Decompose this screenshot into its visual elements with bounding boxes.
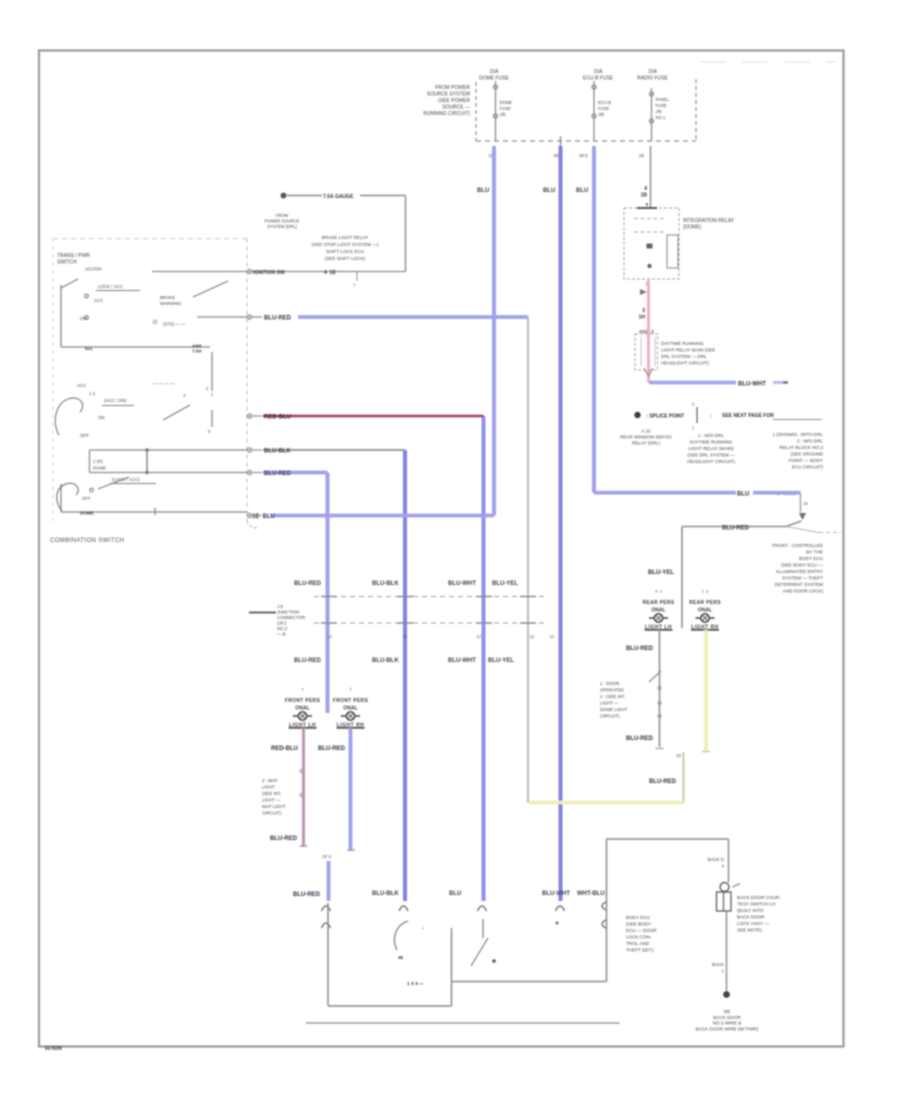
svg-text:4 2: 4 2: [655, 589, 662, 594]
svg-text:FUSE: FUSE: [656, 103, 667, 108]
svg-text:OFF: OFF: [80, 433, 89, 438]
svg-text:FUSE: FUSE: [598, 106, 609, 111]
svg-text:SEE NEXT PAGE FOR: SEE NEXT PAGE FOR: [722, 413, 774, 419]
svg-text:(DOME): (DOME): [683, 225, 702, 231]
svg-text:15A: 15A: [490, 69, 500, 75]
solid ticks at crossings: [321, 597, 536, 624]
svg-text:OFF: OFF: [82, 496, 91, 501]
wire stub from AM2: [211, 352, 213, 391]
wire F2 branch turning right (blue horizontal): [594, 491, 736, 495]
key box description text: [312, 235, 379, 261]
svg-text:ILLUMINATED ENTRY: ILLUMINATED ENTRY: [776, 569, 823, 574]
svg-text:5: 5: [208, 429, 211, 434]
svg-text:(ST2) — —: (ST2) — —: [163, 322, 186, 327]
svg-text:BLU-RED: BLU-RED: [318, 746, 346, 752]
svg-text:J/B: J/B: [500, 112, 506, 117]
svg-text:JUNCTION: JUNCTION: [277, 610, 299, 615]
pin codes below bus: [328, 634, 554, 639]
svg-text:ONAL: ONAL: [343, 706, 357, 712]
svg-text:(SEE DRL SYSTEM —: (SEE DRL SYSTEM —: [687, 453, 735, 458]
svg-text:ON: ON: [80, 316, 87, 321]
svg-text:1 : W/O DRL: 1 : W/O DRL: [698, 433, 724, 438]
switch name text: [737, 895, 781, 933]
svg-text:LIGHT —: LIGHT —: [262, 798, 281, 803]
wire row4 to body ECU pin (blue): [482, 416, 486, 901]
ground splice dot: [723, 991, 730, 998]
svg-text:BLU-YEL: BLU-YEL: [648, 570, 674, 576]
svg-text:— B: — B: [277, 632, 286, 637]
svg-text:1J: 1J: [477, 634, 481, 639]
svg-text:1J: 1J: [403, 634, 407, 639]
svg-text:1: 1: [722, 969, 725, 974]
svg-text:DOME LIGHT: DOME LIGHT: [600, 707, 628, 712]
wire down from box top: [728, 839, 730, 882]
svg-text:LOCK ASSY —: LOCK ASSY —: [737, 921, 769, 926]
svg-text:BLU: BLU: [449, 891, 461, 897]
svg-text:SEE NOTE): SEE NOTE): [737, 928, 762, 933]
svg-text:CIRCUIT): CIRCUIT): [600, 714, 620, 719]
note block A: [620, 429, 672, 446]
svg-text:BACK DOOR: BACK DOOR: [713, 1015, 741, 1020]
arrow under DRL box: [644, 368, 653, 376]
svg-text:7: 7: [353, 283, 356, 288]
svg-text:I47609: I47609: [45, 1046, 62, 1052]
svg-text:CIRCUIT): CIRCUIT): [262, 811, 282, 816]
svg-text:BRAKE: BRAKE: [160, 295, 175, 300]
svg-text:— — — —: — — — —: [153, 381, 175, 386]
wire row y416 red: [248, 415, 262, 417]
switch group 2 spring: [55, 398, 82, 435]
svg-text:4: 4: [644, 186, 647, 192]
svg-text:BLU-YEL: BLU-YEL: [488, 658, 514, 664]
svg-text:BLU-BLK: BLU-BLK: [372, 581, 399, 587]
svg-text:ECU — DOOR: ECU — DOOR: [626, 928, 657, 933]
svg-text:TESY SWITCH LH: TESY SWITCH LH: [737, 902, 776, 907]
svg-text:SYSTEM (DRL): SYSTEM (DRL): [267, 224, 297, 229]
svg-text:(SEE INT.: (SEE INT.: [262, 791, 281, 796]
svg-text:BLU: BLU: [477, 188, 489, 194]
svg-text:REAR WINDOW DEFOG: REAR WINDOW DEFOG: [620, 435, 672, 440]
wire fuse F3 to relay (gray): [650, 146, 652, 208]
svg-text:J/B: J/B: [656, 109, 662, 114]
svg-text:BLU-YEL: BLU-YEL: [492, 581, 518, 587]
wire down to dome lights: [681, 527, 683, 629]
svg-text:15A: 15A: [594, 69, 604, 75]
svg-text:1B 8: 1B 8: [579, 153, 588, 158]
wire right edge of key box: [405, 196, 407, 272]
DRL relay dashed box: [635, 334, 658, 370]
wire yellow horizontal to splice: [529, 801, 684, 804]
wire L2 return (blue): [349, 728, 353, 851]
svg-text:FUSE: FUSE: [500, 106, 511, 111]
svg-text:BLU-WHT: BLU-WHT: [448, 581, 476, 587]
svg-text:1E: 1E: [676, 753, 681, 758]
wire row y517: [248, 515, 262, 517]
svg-text:15A: 15A: [648, 69, 658, 75]
svg-text:FRONT PERS: FRONT PERS: [333, 698, 369, 704]
inline connector blob: [799, 513, 806, 520]
svg-text:BLU-RED: BLU-RED: [293, 892, 321, 898]
svg-text:ONAL: ONAL: [651, 608, 665, 614]
svg-text:WARNING: WARNING: [160, 301, 182, 306]
svg-text:7.5A GAUGE: 7.5A GAUGE: [323, 194, 354, 200]
svg-text:2: 2: [206, 386, 209, 391]
svg-text:NO.2 WIRE &: NO.2 WIRE &: [713, 1021, 741, 1026]
wire fuse F1 to row4 (blue): [492, 146, 496, 516]
svg-text:BLU-BLK: BLU-BLK: [264, 449, 291, 455]
svg-text:BACK DOOR: BACK DOOR: [737, 915, 765, 920]
svg-text:19: 19: [803, 501, 808, 506]
body ECU outline: [328, 839, 729, 1006]
svg-text:LIGHT: LIGHT: [262, 785, 275, 790]
pin dots: [658, 687, 661, 690]
svg-text:RED-BLU: RED-BLU: [271, 746, 298, 752]
svg-text:RUNNING CIRCUIT): RUNNING CIRCUIT): [423, 111, 470, 117]
switch tap diagonal: [649, 671, 661, 682]
svg-text:1: 1: [211, 392, 214, 397]
svg-text:REAR PERS: REAR PERS: [689, 600, 721, 606]
svg-text:A22 2: A22 2: [639, 329, 654, 334]
power source note text: [423, 85, 470, 117]
wire row y472: [248, 472, 262, 474]
svg-text:DAYTIME RUNNING: DAYTIME RUNNING: [690, 440, 733, 445]
svg-text:HEADLIGHT CIRCUIT): HEADLIGHT CIRCUIT): [661, 361, 709, 366]
svg-text:IGNITION SW: IGNITION SW: [253, 270, 285, 276]
svg-text:J/B: J/B: [598, 112, 604, 117]
fuse F1 name: [500, 97, 670, 120]
svg-text:BB: BB: [724, 1009, 730, 1014]
svg-text:PANEL: PANEL: [656, 97, 670, 102]
svg-text:HEADLIGHT CIRCUIT): HEADLIGHT CIRCUIT): [687, 459, 735, 464]
wire corner down: [800, 493, 802, 512]
svg-text:BLU-WHT: BLU-WHT: [542, 891, 570, 897]
svg-text:1 2: 1 2: [89, 391, 96, 396]
splice marks: [640, 289, 647, 295]
svg-text:ACC: ACC: [77, 383, 86, 388]
svg-text:BODY ECU: BODY ECU: [799, 556, 823, 561]
ECU name text: [626, 915, 657, 953]
svg-text:BACK D: BACK D: [708, 857, 724, 862]
wire bottom of key box: [152, 271, 406, 273]
switch box name text: [57, 253, 101, 272]
svg-text:2 (R): 2 (R): [93, 459, 103, 464]
pin hooks top edge: [322, 902, 608, 929]
junction ties of group 3: [146, 450, 148, 473]
svg-text:SWITCH: SWITCH: [57, 260, 77, 266]
wire R2 return (yellow): [704, 630, 708, 751]
map light note text: [262, 778, 286, 816]
svg-text:BLU: BLU: [737, 492, 749, 498]
svg-text:INTEGRATION RELAY: INTEGRATION RELAY: [683, 218, 735, 224]
relay pin header: [667, 235, 678, 268]
svg-text:LOCK / ACC: LOCK / ACC: [98, 284, 123, 289]
svg-text:A 22: A 22: [641, 429, 651, 434]
svg-text:DOME: DOME: [500, 100, 513, 105]
svg-text:SYSTEM — THEFT: SYSTEM — THEFT: [782, 576, 823, 581]
svg-text:BACK DOOR WIRE (W/ PWR): BACK DOOR WIRE (W/ PWR): [696, 1027, 759, 1032]
svg-text:RADIO FUSE: RADIO FUSE: [637, 76, 668, 82]
fuse F1 DOME label: [479, 69, 668, 82]
svg-text:46: 46: [398, 955, 404, 960]
wire to ECU (blue): [327, 861, 331, 901]
svg-text:DOME: DOME: [93, 466, 106, 471]
faint top dashed line: [700, 61, 836, 63]
wire row y317 stub: [197, 316, 262, 318]
svg-text:FROM: FROM: [276, 213, 289, 218]
svg-text:CONNECTOR: CONNECTOR: [277, 615, 305, 620]
leader line to note: [786, 527, 819, 533]
svg-text:FROM POWER: FROM POWER: [435, 85, 470, 91]
svg-text:(J/C): (J/C): [277, 621, 287, 626]
relay U1 box: [624, 208, 679, 279]
courtesy switch Q1: [720, 883, 729, 892]
switch group 1: [61, 279, 228, 347]
svg-text:SHIFT LOCK ECU: SHIFT LOCK ECU: [326, 249, 364, 254]
svg-text:BY THE: BY THE: [806, 550, 823, 555]
svg-text:BLU-BLK: BLU-BLK: [372, 658, 399, 664]
svg-text:BLU-RED: BLU-RED: [626, 646, 654, 652]
pin dots on violet wire: [300, 770, 303, 773]
box corner hook: [247, 521, 257, 528]
splice dot: [634, 412, 640, 418]
svg-text:BLU-WHT: BLU-WHT: [738, 382, 766, 388]
svg-text:COMBINATION SWITCH: COMBINATION SWITCH: [50, 538, 124, 544]
wire row y317 blue: [298, 315, 528, 319]
fuse F1 symbol: [494, 81, 498, 141]
svg-text:7.5A: 7.5A: [192, 349, 202, 354]
dome light note text: [772, 543, 824, 594]
svg-text:3: 3: [183, 393, 186, 398]
svg-text:1 X 4 —: 1 X 4 —: [407, 981, 424, 986]
svg-text:ECU CIRCUIT): ECU CIRCUIT): [792, 465, 824, 470]
svg-text:OPERATED: OPERATED: [600, 688, 624, 693]
junction block J/B dashed outline: [476, 79, 696, 141]
svg-text:RELAY BLOCK NO.2: RELAY BLOCK NO.2: [779, 445, 823, 450]
svg-text:1B: 1B: [639, 153, 644, 158]
svg-text:LIGHT —: LIGHT —: [600, 701, 619, 706]
svg-text:POINT — BODY: POINT — BODY: [789, 458, 823, 463]
svg-text:(BUILT INTO: (BUILT INTO: [737, 908, 764, 913]
svg-text:FRONT : CONTROLLED: FRONT : CONTROLLED: [772, 543, 824, 548]
lamp L2: [333, 687, 369, 729]
svg-text:MAP LIGHT: MAP LIGHT: [262, 804, 286, 809]
ECU interior switch diagonal: [471, 938, 488, 966]
wire fuse F2 down (blue): [592, 146, 596, 493]
svg-text:5: 5: [646, 202, 649, 207]
svg-text:BODY ECU: BODY ECU: [626, 915, 650, 920]
svg-text:RELAY (DRL): RELAY (DRL): [632, 441, 661, 446]
wire R1 return (gray): [659, 630, 661, 747]
svg-text:REAR PERS: REAR PERS: [643, 600, 675, 606]
junction connector dashed bus 2: [314, 622, 547, 624]
svg-text:2: 2: [692, 402, 695, 407]
junction connector dashed bus 1: [314, 596, 547, 598]
relay coil dashes: [634, 218, 665, 220]
switch group 3 bottom wire: [61, 511, 247, 513]
svg-text:+: +: [422, 926, 425, 931]
svg-text:DETERRENT SYSTEM: DETERRENT SYSTEM: [775, 582, 823, 587]
separator line: [306, 1022, 620, 1024]
relay contact marks: [647, 244, 653, 249]
svg-text:THEFT DET.): THEFT DET.): [626, 948, 654, 953]
lamp R2: [689, 589, 721, 631]
wire relay to right (blue horizontal): [649, 381, 736, 385]
svg-text:POWER SOURCE: POWER SOURCE: [265, 219, 300, 224]
svg-text:1 : DOOR: 1 : DOOR: [600, 681, 619, 686]
svg-text:1J: 1J: [328, 634, 332, 639]
node A junction dot: [281, 193, 287, 199]
wire labels below rows: [294, 658, 514, 664]
wire end ticks: [656, 748, 664, 750]
svg-text:LIGHT RELAY MAIN (SEE: LIGHT RELAY MAIN (SEE: [661, 348, 715, 353]
svg-text:BLU: BLU: [543, 188, 555, 194]
wire top of key box: [287, 195, 322, 197]
svg-text:BLU-RED: BLU-RED: [649, 779, 677, 785]
lamp L1: [285, 687, 321, 729]
wire personal light feed (blue vertical): [326, 473, 330, 714]
fuse F3 symbol: [650, 88, 654, 141]
note block B: [687, 433, 735, 464]
svg-text:BLU-RED: BLU-RED: [270, 836, 298, 842]
wire labels above rows: [294, 581, 518, 587]
svg-text:1 3: 1 3: [702, 589, 709, 594]
svg-text:2 : (SEE INT: 2 : (SEE INT: [600, 694, 625, 699]
fuse F2 symbol: [592, 81, 596, 141]
svg-text:SOURCE —: SOURCE —: [442, 105, 470, 111]
svg-text:(SEE BODY: (SEE BODY: [626, 922, 651, 927]
svg-text:4: 4: [722, 864, 725, 869]
svg-text:BLU-BLK: BLU-BLK: [372, 891, 399, 897]
wire ECU feed (dark blue vertical): [403, 450, 407, 901]
node stub for wire B inside J/B: [560, 136, 562, 146]
svg-text:BLU-RED: BLU-RED: [294, 658, 322, 664]
wire junction connector branch (gray vertical): [527, 317, 529, 803]
switch group 3 spring: [57, 483, 78, 511]
svg-text:DRL SYSTEM — DRL: DRL SYSTEM — DRL: [661, 354, 707, 359]
wire row y450: [248, 449, 262, 451]
svg-text:(SEE SHIFT LOCK): (SEE SHIFT LOCK): [325, 256, 366, 261]
svg-text:2 : W/O DRL: 2 : W/O DRL: [797, 439, 823, 444]
svg-text:BRAKE LIGHT RELAY: BRAKE LIGHT RELAY: [322, 235, 368, 240]
svg-text:FRONT PERS: FRONT PERS: [285, 698, 321, 704]
svg-text:AND DOOR LOCK): AND DOOR LOCK): [783, 589, 824, 594]
svg-text:BLU-RED: BLU-RED: [722, 526, 750, 532]
svg-text:J 5: J 5: [277, 604, 283, 609]
svg-text:: SPLICE POINT: : SPLICE POINT: [645, 414, 684, 420]
switch box dashed outline: [53, 239, 247, 522]
svg-text:(SEE BODY ECU —: (SEE BODY ECU —: [781, 563, 823, 568]
svg-text:SOURCE SYSTEM: SOURCE SYSTEM: [427, 92, 470, 98]
svg-text:(SEE POWER: (SEE POWER: [438, 98, 470, 104]
DRL relay name: [661, 341, 715, 366]
wire jog to dome lights: [682, 521, 802, 527]
svg-text:4 1E: 4 1E: [324, 270, 336, 276]
svg-text:NO.2: NO.2: [277, 626, 288, 631]
svg-text:1: 1: [692, 426, 695, 431]
svg-text:DOME: DOME: [80, 511, 94, 516]
pin labels below J/B: [488, 153, 644, 158]
wire junction drop (pale): [683, 752, 685, 803]
svg-text:TROL AND: TROL AND: [626, 941, 650, 946]
svg-text:BACK DOOR COUR-: BACK DOOR COUR-: [737, 895, 781, 900]
svg-text::: :: [709, 414, 712, 420]
svg-text:(ACC / ON): (ACC / ON): [104, 398, 127, 403]
svg-text:DOME FUSE: DOME FUSE: [479, 76, 509, 82]
svg-text:1B: 1B: [641, 193, 648, 199]
svg-text:BLU-RED: BLU-RED: [264, 471, 292, 477]
svg-text:BLU-RED: BLU-RED: [294, 581, 322, 587]
wire color labels below J/B: [477, 188, 588, 194]
svg-text:(LOCK / ACC): (LOCK / ACC): [112, 477, 140, 482]
svg-text:2 : MAP: 2 : MAP: [262, 778, 278, 783]
power source tag under node A: [265, 213, 300, 229]
rear light note text: [600, 681, 628, 719]
svg-text:1: 1: [301, 687, 304, 692]
svg-text:BLU: BLU: [576, 188, 588, 194]
wire switch to ground: [726, 911, 728, 991]
pin circles on box right edge: [247, 269, 251, 517]
svg-text:NO.1: NO.1: [656, 115, 666, 120]
svg-text:3: 3: [642, 308, 645, 314]
svg-text:ACC: ACC: [94, 298, 103, 303]
svg-text:1E BLU: 1E BLU: [252, 514, 275, 520]
svg-text:TRANS / PWR: TRANS / PWR: [57, 253, 90, 259]
svg-text:— ———: — ———: [776, 492, 797, 497]
svg-text:WHT-BLU: WHT-BLU: [577, 891, 605, 897]
svg-text:(SEE STOP LIGHT SYSTEM —): (SEE STOP LIGHT SYSTEM —): [312, 242, 379, 247]
svg-text:DAYTIME RUNNING: DAYTIME RUNNING: [661, 341, 704, 346]
svg-text:ONAL: ONAL: [295, 706, 309, 712]
svg-text:LOCK CON-: LOCK CON-: [626, 935, 652, 940]
wire labels above pins: [372, 891, 605, 897]
svg-text:1B: 1B: [553, 153, 558, 158]
switch group 3 bracket wires: [90, 449, 248, 451]
svg-text:ONAL: ONAL: [698, 608, 712, 614]
pin tick below bottom wire: [356, 272, 358, 281]
svg-text:ECU-B: ECU-B: [598, 100, 611, 105]
lamp R1: [643, 589, 675, 631]
svg-text:IG1: IG1: [85, 346, 93, 351]
svg-text:ACC/ON: ACC/ON: [85, 267, 101, 272]
svg-text:BLU-WHT: BLU-WHT: [448, 658, 476, 664]
svg-text:1J: 1J: [530, 634, 534, 639]
ground label pyramid: [696, 1009, 759, 1032]
wire relay output (pink): [647, 280, 650, 383]
svg-text:2: 2: [349, 687, 352, 692]
svg-text:1E 6: 1E 6: [322, 854, 332, 859]
svg-text:LIGHT RELAY (MAIN): LIGHT RELAY (MAIN): [688, 446, 734, 451]
junction connector label: [249, 612, 276, 614]
svg-text:1 (SHOWN) : WITH DRL: 1 (SHOWN) : WITH DRL: [772, 432, 823, 437]
svg-text:RED-BLU: RED-BLU: [264, 415, 291, 421]
svg-text:BLU-RED: BLU-RED: [264, 316, 292, 322]
switch group 1 bottom wire: [61, 346, 210, 348]
wire L1 return (violet): [302, 728, 305, 847]
svg-text:1J: 1J: [550, 634, 554, 639]
svg-text:BLU-RED: BLU-RED: [626, 736, 654, 742]
svg-text:1H: 1H: [639, 315, 646, 321]
svg-text:(SEE GROUND: (SEE GROUND: [791, 452, 824, 457]
ECU interior switch arc: [394, 921, 408, 950]
wire fuse bus to body ECU (blue): [559, 146, 563, 901]
svg-text:ON: ON: [98, 415, 105, 420]
switch group 3 lever: [98, 477, 129, 489]
svg-text:ECU-B FUSE: ECU-B FUSE: [583, 76, 614, 82]
note block C: [772, 432, 823, 470]
svg-text:BACK: BACK: [712, 962, 724, 967]
